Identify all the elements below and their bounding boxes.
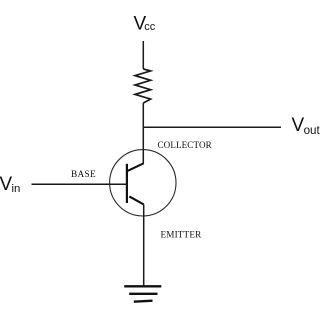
label Vout — [292, 115, 320, 137]
svg-text:in: in — [12, 183, 21, 195]
transistor Q1 circle — [110, 150, 176, 216]
svg-text:COLLECTOR: COLLECTOR — [158, 140, 213, 150]
svg-text:V: V — [292, 115, 305, 136]
label Vcc — [134, 13, 156, 34]
svg-text:EMITTER: EMITTER — [161, 230, 203, 240]
ground bar 2 — [129, 293, 157, 295]
resistor R1 — [135, 69, 151, 103]
transistor Q1 base bar — [126, 164, 128, 203]
wire resistor to collector — [142, 103, 144, 164]
wire Vcc lead — [142, 41, 144, 69]
ground bar 1 — [124, 285, 161, 287]
svg-text:out: out — [304, 124, 320, 137]
wire base — [32, 183, 127, 185]
transistor Q1 emitter stroke — [129, 196, 143, 204]
ground bar 3 — [134, 301, 153, 302]
label Vin — [0, 174, 20, 195]
wire output tap — [143, 126, 281, 128]
svg-text:BASE: BASE — [71, 170, 96, 180]
svg-text:cc: cc — [144, 21, 156, 33]
wire emitter to ground — [143, 204, 145, 286]
transistor Q1 collector stroke — [127, 163, 144, 171]
